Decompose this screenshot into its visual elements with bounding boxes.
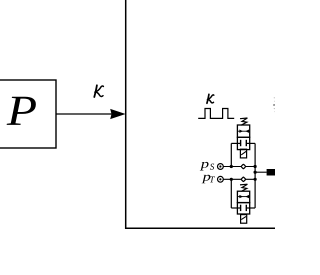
node kappa label small bbox=[207, 94, 214, 103]
big system box bbox=[126, 0, 280, 228]
valve V1 poppet line bbox=[237, 130, 249, 132]
port symbol pT bbox=[218, 176, 224, 182]
wire right bus bbox=[254, 143, 256, 208]
valve V2 spring bbox=[240, 184, 247, 191]
junction output at bus bbox=[254, 171, 257, 174]
valve V1 seat bar left bbox=[240, 140, 242, 146]
wire V1 port left bbox=[231, 142, 240, 144]
junction pS branch V1 bbox=[230, 165, 233, 168]
label pT bbox=[202, 175, 211, 184]
wire branch V1 left bbox=[230, 143, 232, 166]
wire V1 port right bbox=[246, 142, 255, 144]
valve V1 position box open bbox=[237, 137, 249, 149]
valve V2 poppet arrow left bbox=[239, 195, 243, 198]
orifice diamond upper bbox=[241, 164, 246, 169]
valve V2 position box open bbox=[237, 203, 249, 214]
junction pT at bus bbox=[254, 178, 257, 181]
valve V2 seat bar left bbox=[240, 205, 242, 211]
valve V2 poppet arrow right bbox=[245, 195, 249, 198]
wire V2 port right bbox=[246, 207, 255, 209]
junction pS at bus bbox=[254, 165, 257, 168]
port symbol pS bbox=[218, 164, 224, 170]
clipped label fragment right edge bbox=[274, 98, 276, 112]
valve V2 solenoid diagonal bbox=[241, 216, 246, 219]
valve V1 seat bar right bbox=[245, 140, 247, 146]
label pS bbox=[200, 162, 209, 171]
junction pT branch V2 bbox=[230, 178, 233, 181]
valve V1 poppet arrow left bbox=[239, 130, 243, 133]
valve V2 position box closed bbox=[237, 191, 249, 202]
node pS port line bbox=[223, 166, 255, 168]
arrowhead kappa wire bbox=[110, 109, 125, 119]
node pT port line bbox=[223, 178, 255, 180]
controller box P bbox=[0, 80, 56, 148]
load port block bbox=[267, 169, 277, 176]
label P bbox=[7, 97, 36, 125]
valve V1 spring bbox=[240, 118, 247, 125]
valve V1 solenoid box bbox=[240, 149, 246, 158]
valve V2 solenoid box bbox=[241, 215, 247, 224]
valve V2 seat bar right bbox=[245, 205, 247, 211]
valve V2 poppet line bbox=[237, 196, 249, 198]
valve V1 poppet arrow right bbox=[245, 130, 249, 133]
node kappa label bbox=[94, 85, 103, 97]
wire V2 port left bbox=[231, 207, 240, 209]
orifice diamond lower bbox=[241, 177, 246, 182]
valve V1 solenoid diagonal bbox=[241, 151, 246, 155]
output stub wire bbox=[255, 171, 267, 173]
wire branch V2 left bbox=[230, 179, 232, 208]
wire kappa signal from P to plant bbox=[56, 113, 114, 115]
PWM square wave bbox=[198, 109, 234, 119]
valve V1 position box closed bbox=[237, 125, 249, 137]
